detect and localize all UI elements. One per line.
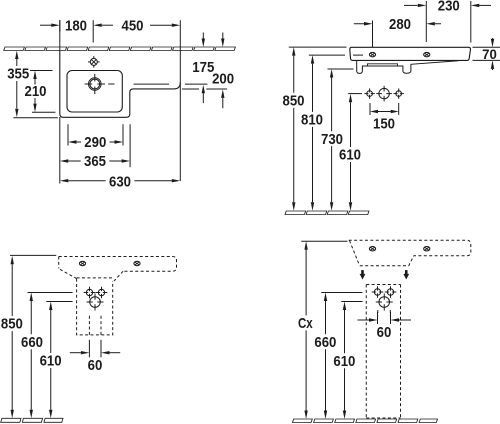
svg-text:175: 175 bbox=[192, 60, 214, 76]
svg-text:810: 810 bbox=[301, 113, 323, 129]
svg-text:450: 450 bbox=[122, 18, 144, 34]
svg-text:70: 70 bbox=[482, 46, 497, 62]
svg-text:850: 850 bbox=[283, 93, 305, 109]
svg-text:200: 200 bbox=[212, 71, 234, 87]
svg-text:730: 730 bbox=[321, 132, 343, 148]
svg-text:Cx: Cx bbox=[298, 316, 313, 332]
svg-text:290: 290 bbox=[84, 135, 106, 151]
svg-text:60: 60 bbox=[377, 325, 392, 341]
svg-text:610: 610 bbox=[339, 148, 361, 164]
svg-text:630: 630 bbox=[109, 174, 131, 190]
svg-text:280: 280 bbox=[389, 17, 411, 33]
svg-text:230: 230 bbox=[438, 0, 460, 15]
svg-text:850: 850 bbox=[1, 317, 23, 333]
svg-text:150: 150 bbox=[373, 117, 395, 133]
svg-text:365: 365 bbox=[84, 154, 106, 170]
svg-text:210: 210 bbox=[25, 84, 47, 100]
svg-text:660: 660 bbox=[21, 335, 43, 351]
svg-text:180: 180 bbox=[65, 18, 87, 34]
svg-text:660: 660 bbox=[314, 335, 336, 351]
svg-text:610: 610 bbox=[333, 354, 355, 370]
svg-text:355: 355 bbox=[7, 67, 29, 83]
svg-text:60: 60 bbox=[88, 358, 103, 374]
svg-text:610: 610 bbox=[40, 354, 62, 370]
